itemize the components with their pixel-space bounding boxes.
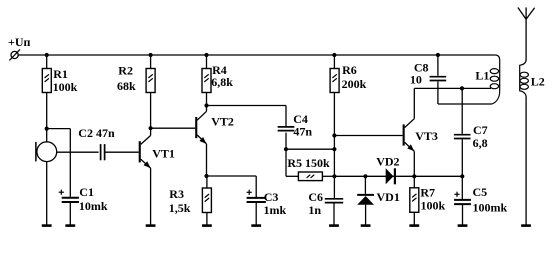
svg-text:R2: R2 — [118, 63, 133, 77]
svg-text:VT3: VT3 — [415, 129, 438, 143]
junction VD1 — [363, 174, 367, 178]
label L2 — [531, 74, 545, 88]
wire VT2 collector to C4 — [207, 106, 287, 127]
svg-text:10mk: 10mk — [79, 199, 108, 213]
capacitor C5 — [454, 200, 471, 204]
junction rail-R2 — [149, 53, 153, 57]
wire mic node to mic — [46, 129, 48, 142]
polarity + C1 — [59, 190, 64, 195]
junction rail-C8 — [436, 53, 440, 57]
junction R6-C4branch — [332, 147, 336, 151]
label VD2 — [376, 154, 399, 168]
wire mic to ground — [46, 162, 48, 226]
value C4 47n — [293, 125, 312, 139]
transistor VT2 — [195, 111, 206, 144]
svg-text:68k: 68k — [117, 79, 136, 93]
capacitor C4 — [278, 127, 295, 131]
junction tap-C7 — [460, 86, 464, 90]
inductor L1 — [490, 55, 500, 104]
svg-text:L2: L2 — [531, 74, 545, 88]
label C4 — [293, 112, 308, 126]
wire R3 to ground — [206, 213, 208, 226]
wire bottom line to L1 — [438, 103, 492, 105]
svg-text:R7: R7 — [420, 185, 435, 199]
resistor R6 — [330, 69, 339, 93]
wire rail to R4 — [206, 55, 208, 69]
ground C5 — [458, 224, 468, 227]
label R6 — [342, 63, 357, 77]
diode VD1 — [357, 195, 374, 205]
label VD1 — [377, 190, 400, 204]
svg-text:100mk: 100mk — [473, 201, 508, 215]
wire VD1 to ground — [365, 205, 367, 226]
junction mic node — [45, 127, 49, 131]
value C8 10 — [410, 73, 422, 87]
microphone B1 — [36, 142, 57, 162]
wire R4 to VT2 collector — [206, 93, 208, 106]
svg-text:200k: 200k — [342, 77, 367, 91]
svg-text:C1: C1 — [79, 185, 94, 199]
value R7 100k — [421, 199, 446, 213]
label C1 — [79, 185, 94, 199]
ground VD1 — [361, 224, 371, 227]
value C6 1n — [308, 203, 321, 217]
value C5 100mk — [473, 201, 508, 215]
label R5 150k — [287, 156, 330, 170]
capacitor C1 — [62, 198, 79, 202]
svg-text:C7: C7 — [473, 123, 488, 137]
junction VT3 emitter node — [412, 174, 416, 178]
wire VT2 emitter — [206, 144, 208, 176]
wire mic node over to C1 line — [47, 129, 71, 197]
wire tap to C7 — [461, 88, 463, 133]
ground VT1 emitter — [146, 224, 156, 227]
value R6 200k — [342, 77, 367, 91]
label C2 47n — [78, 126, 115, 140]
label VT3 — [415, 129, 438, 143]
label C7 — [473, 123, 488, 137]
ground mic — [42, 224, 52, 227]
junction C4 branch — [284, 147, 288, 151]
svg-text:+Uп: +Uп — [8, 35, 31, 49]
resistor R7 — [410, 188, 419, 213]
label C3 — [264, 190, 279, 204]
label +Un supply — [8, 35, 31, 49]
resistor R5 — [298, 172, 322, 181]
resistor R4 — [202, 69, 211, 93]
svg-text:10: 10 — [410, 73, 422, 87]
wire R5 to long line — [322, 175, 334, 177]
wire rail to R2 — [150, 55, 152, 69]
junction R6-VT3base — [332, 133, 336, 137]
svg-text:1n: 1n — [308, 203, 321, 217]
wire VT3 collector to L1 tap — [414, 87, 491, 89]
label VT2 — [211, 115, 234, 129]
junction rail-R1 — [45, 53, 49, 57]
wire VT1 emitter to ground — [150, 168, 152, 226]
capacitor C3 — [247, 198, 266, 202]
wire long line VD section — [334, 175, 462, 177]
capacitor C7 — [454, 135, 471, 139]
wire C3 to ground — [255, 202, 257, 225]
wire VT1 collector — [150, 128, 152, 135]
wire C2 to VT1 base — [105, 151, 139, 153]
resistor R1 — [42, 69, 51, 93]
svg-text:VT2: VT2 — [211, 115, 234, 129]
wire rail to C8 — [437, 55, 439, 76]
svg-text:R5 150k: R5 150k — [287, 156, 330, 170]
wire C4 branch to R6 line — [286, 148, 334, 150]
wire C8 to bottom line — [437, 82, 439, 104]
wire C1 to ground — [69, 202, 71, 226]
svg-text:C5: C5 — [473, 185, 488, 199]
label R3 — [169, 187, 184, 201]
junction VT1 collector node — [149, 126, 153, 130]
svg-text:47n: 47n — [293, 125, 312, 139]
label C6 — [308, 190, 323, 204]
wire VT2 emitter to C3 — [207, 176, 257, 198]
label C8 — [414, 60, 429, 74]
wire rail to R1 — [46, 55, 48, 69]
wire R2 to VT1 collector — [150, 93, 152, 129]
wire node to C5 — [461, 176, 463, 200]
ground C3 — [251, 224, 261, 227]
wire VT3 emitter — [413, 151, 415, 176]
svg-text:1mk: 1mk — [264, 203, 287, 217]
svg-text:R1: R1 — [53, 67, 68, 81]
junction VT2 collector node — [204, 103, 208, 107]
transistor VT3 — [403, 119, 415, 152]
ground C1 — [65, 224, 75, 227]
transistor VT1 — [139, 136, 151, 169]
svg-text:C2 47n: C2 47n — [78, 126, 115, 140]
value R4 6,8k — [211, 75, 233, 89]
ground R3 — [202, 224, 212, 227]
value C1 10mk — [79, 199, 108, 213]
wire supply rail — [18, 54, 495, 56]
svg-text:1,5k: 1,5k — [169, 201, 191, 215]
value R1 100k — [53, 80, 78, 94]
wire mic output — [57, 151, 99, 153]
svg-text:R6: R6 — [342, 63, 357, 77]
inductor L2 — [520, 60, 529, 98]
svg-text:VT1: VT1 — [152, 146, 175, 160]
svg-text:6,8: 6,8 — [473, 136, 488, 150]
svg-text:C6: C6 — [308, 190, 323, 204]
capacitor C8 — [430, 77, 447, 81]
wire to C6 — [333, 176, 335, 198]
value R2 68k — [117, 79, 136, 93]
label R7 — [420, 185, 435, 199]
svg-text:100k: 100k — [53, 80, 78, 94]
wire to VD1 — [364, 176, 366, 194]
label R2 — [118, 63, 133, 77]
svg-text:VD2: VD2 — [376, 154, 399, 168]
value C7 6,8 — [473, 136, 488, 150]
antenna W1 — [518, 7, 535, 59]
svg-text:6,8k: 6,8k — [211, 75, 233, 89]
label C5 — [473, 185, 488, 199]
terminal +Un — [9, 49, 20, 60]
label R4 — [212, 63, 227, 77]
ground C6 — [329, 224, 339, 227]
wire L2 to ground — [525, 97, 527, 226]
wire VT1 collector to VT2 base — [151, 127, 196, 129]
wire R1 to mic node — [46, 93, 48, 129]
wire C4 to R5 — [286, 133, 298, 177]
wire C5 to ground — [462, 204, 464, 226]
resistor R2 — [146, 69, 155, 93]
wire VT3 collector — [413, 88, 415, 118]
ground R7 — [409, 224, 419, 227]
svg-text:VD1: VD1 — [377, 190, 400, 204]
wire R6 to VT3 base — [334, 135, 402, 137]
wire R7 to ground — [413, 212, 415, 226]
svg-text:L1: L1 — [475, 68, 489, 82]
junction C7-C5 — [460, 174, 464, 178]
label VT1 — [152, 146, 175, 160]
junction rail-R6 — [332, 53, 336, 57]
junction R6-longline — [332, 174, 336, 178]
svg-text:C3: C3 — [264, 190, 279, 204]
wire C7 to long node — [461, 140, 463, 177]
diode VD2 — [386, 168, 395, 184]
wire R6 down — [333, 93, 335, 177]
wire C6 to ground — [333, 203, 335, 226]
wire VT2 emitter to R3 — [206, 176, 208, 188]
capacitor C2 — [101, 144, 105, 160]
wire VT2 collector — [206, 106, 208, 112]
capacitor C6 — [325, 199, 343, 203]
svg-text:R3: R3 — [169, 187, 184, 201]
wire rail to R6 — [333, 55, 335, 69]
value R3 1,5k — [169, 201, 191, 215]
junction rail-R4 — [204, 53, 208, 57]
value C3 1mk — [264, 203, 287, 217]
label L1 — [475, 68, 489, 82]
svg-text:100k: 100k — [421, 199, 446, 213]
polarity + C3 — [247, 190, 252, 195]
polarity + C5 — [454, 192, 459, 197]
wire to R7 — [413, 176, 415, 188]
junction VT2 emitter node — [204, 174, 208, 178]
ground L2 — [521, 224, 531, 227]
resistor R3 — [202, 188, 211, 213]
label R1 — [53, 67, 68, 81]
